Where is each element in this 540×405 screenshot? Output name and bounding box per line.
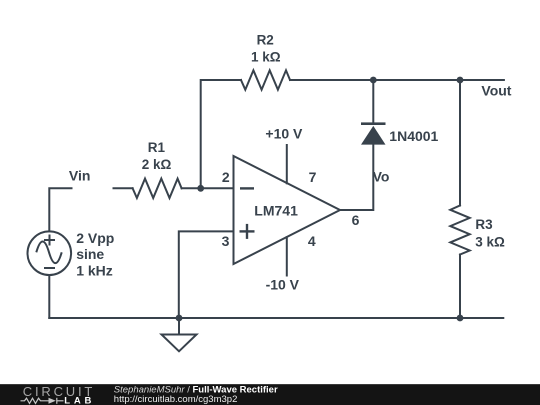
op-amp minus input mark xyxy=(240,188,255,239)
resistor R1 xyxy=(133,179,182,198)
svg-text:R1: R1 xyxy=(148,140,166,155)
wire Vin stub xyxy=(49,188,71,231)
diode D1 vertical wire above xyxy=(372,80,374,123)
wire R3 to bottom xyxy=(459,255,461,319)
op-amp U1 triangle xyxy=(234,156,341,264)
footer bar xyxy=(0,384,540,405)
svg-text:6: 6 xyxy=(352,212,360,228)
svg-text:2 Vpp: 2 Vpp xyxy=(76,230,114,246)
svg-text:1 kHz: 1 kHz xyxy=(76,262,113,278)
svg-text:LM741: LM741 xyxy=(254,203,298,219)
wire pin6 output xyxy=(340,145,373,210)
svg-text:LAB: LAB xyxy=(64,395,95,405)
footer logo waveform xyxy=(21,398,64,404)
svg-text:4: 4 xyxy=(308,233,316,249)
source V1 minus sign xyxy=(44,267,55,269)
wire R2 to Vout xyxy=(290,79,504,81)
junction node R1/feedback xyxy=(176,77,464,322)
svg-text:sine: sine xyxy=(76,246,104,262)
resistor R3 xyxy=(450,206,469,255)
svg-text:1 kΩ: 1 kΩ xyxy=(251,50,281,65)
wire top feedback horizontal xyxy=(201,80,241,188)
svg-text:3: 3 xyxy=(222,233,230,249)
junction node R3/bottom xyxy=(457,315,464,322)
svg-text:3 kΩ: 3 kΩ xyxy=(475,234,505,249)
svg-text:2 kΩ: 2 kΩ xyxy=(142,157,172,172)
wire R1 to op-amp pin2 xyxy=(182,187,234,189)
svg-text:Vout: Vout xyxy=(481,82,511,98)
junction node diode/top xyxy=(370,77,377,84)
svg-text:R2: R2 xyxy=(257,33,274,48)
svg-text:2: 2 xyxy=(222,169,230,185)
svg-text:1N4001: 1N4001 xyxy=(389,128,438,144)
junction node ground/bottom xyxy=(176,315,183,322)
svg-text:R3: R3 xyxy=(475,217,493,232)
diode D1 1N4001 xyxy=(361,122,386,144)
wire source bottom xyxy=(48,275,50,318)
footer logo diode glyph xyxy=(49,398,56,404)
source V1 plus sign xyxy=(44,235,55,269)
wire bottom rail xyxy=(49,317,503,319)
wire pin3 xyxy=(179,231,234,318)
wire right branch down to R3 xyxy=(459,80,461,206)
source V1 circle xyxy=(28,231,72,275)
svg-text:-10 V: -10 V xyxy=(266,277,300,293)
junction node R3/top xyxy=(457,77,464,84)
wire +10V supply xyxy=(286,145,288,183)
svg-text:Vo: Vo xyxy=(373,169,390,185)
svg-text:7: 7 xyxy=(309,169,317,185)
svg-text:http://circuitlab.com/cg3m3p2: http://circuitlab.com/cg3m3p2 xyxy=(114,394,238,405)
wire -10V supply xyxy=(286,237,288,275)
svg-text:Vin: Vin xyxy=(69,168,91,184)
resistor R2 xyxy=(241,70,290,89)
wire R1 lead left xyxy=(114,187,133,189)
ground symbol xyxy=(162,335,197,352)
svg-text:+10 V: +10 V xyxy=(265,126,303,142)
op-amp plus input mark xyxy=(240,230,255,232)
source V1 sine mark xyxy=(36,241,61,263)
ground stub xyxy=(178,318,180,334)
